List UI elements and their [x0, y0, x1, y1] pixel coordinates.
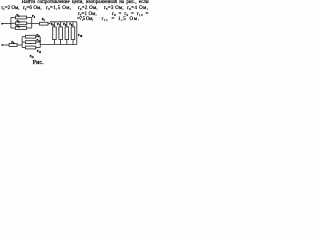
label below block2 [30, 54, 34, 59]
node: block1 right bus [31, 18, 33, 29]
wire bus to R8 [22, 36, 25, 38]
wire to resistor R1 [11, 17, 16, 19]
wire stub bank2 top [60, 22, 62, 27]
resistor R3 [15, 27, 26, 30]
resistor R8 (block2 top) [25, 35, 35, 38]
resistor R5 (series, top) [39, 22, 48, 25]
wire R2 to bus [27, 22, 32, 24]
terminal B (bottom-left) [1, 44, 3, 46]
label r8 (bank3) [63, 22, 66, 27]
wire block1 to R5 [32, 23, 40, 25]
resistor bank2 [59, 27, 63, 40]
label r3 [17, 24, 20, 29]
wire terminal B to R9 [3, 44, 9, 46]
label r7 (bank2) [57, 22, 60, 27]
resistor R10 (block2 middle) [25, 41, 35, 44]
wire stub bank3 bottom [66, 40, 68, 45]
wire stub bank2 bottom [60, 40, 62, 45]
label r9s (above series R9) [11, 40, 14, 45]
label right of block2 middle box [36, 38, 40, 43]
wire R10 to bus [36, 41, 41, 43]
wire bus to R2 [11, 22, 16, 24]
wire stub bank1 top [53, 22, 55, 27]
label r9 (bank4) [69, 22, 72, 27]
node: block2 left bus [21, 37, 23, 48]
label right of block2 bottom box [37, 49, 41, 54]
wire R11 to bus [36, 47, 41, 49]
wire terminal A to block1 [3, 23, 11, 25]
resistor R9 (series, bottom) [9, 44, 17, 47]
resistor bank4 [71, 27, 75, 40]
label r5 [42, 17, 45, 22]
line 4: right column [77, 17, 93, 22]
resistor R1 [15, 16, 26, 19]
line 2: resistor values [2, 6, 20, 11]
wire stub bank4 bottom [72, 40, 74, 45]
wire bus to R3 [11, 27, 16, 29]
label r2 [17, 19, 20, 24]
wire R3 to bus [27, 27, 32, 29]
line 1 of problem text [22, 0, 149, 5]
line 3: right column [78, 12, 97, 17]
wire stub bank3 top [66, 22, 68, 27]
node: block2 right bus [39, 37, 41, 48]
terminal A (top-left) [1, 23, 3, 25]
label r1 [16, 13, 19, 18]
resistor R2 [15, 22, 26, 25]
label right of block2 top box [36, 33, 39, 38]
label r6 (bank1) [51, 22, 54, 27]
figure caption [33, 61, 44, 66]
wire stub bank4 top [72, 22, 74, 27]
wire right end vertical [76, 22, 78, 45]
label r4 [32, 14, 35, 19]
resistor bank1 [53, 27, 57, 40]
wire block2 to bank bottom bus [40, 44, 77, 46]
wire R1 to bus [27, 17, 32, 19]
wire bus to R10 [22, 41, 25, 43]
wire R9 to block2 [17, 44, 22, 46]
resistor R11 (block2 bottom) [25, 46, 35, 49]
wire bus to R11 [22, 47, 25, 49]
resistor bank3 [65, 27, 69, 40]
node: block1 left bus [10, 18, 12, 29]
wire R8 to bus [36, 36, 41, 38]
label r10 (right of bank) [78, 33, 82, 38]
wire stub bank1 bottom [53, 40, 55, 45]
wire R5 to top bus [48, 22, 77, 24]
